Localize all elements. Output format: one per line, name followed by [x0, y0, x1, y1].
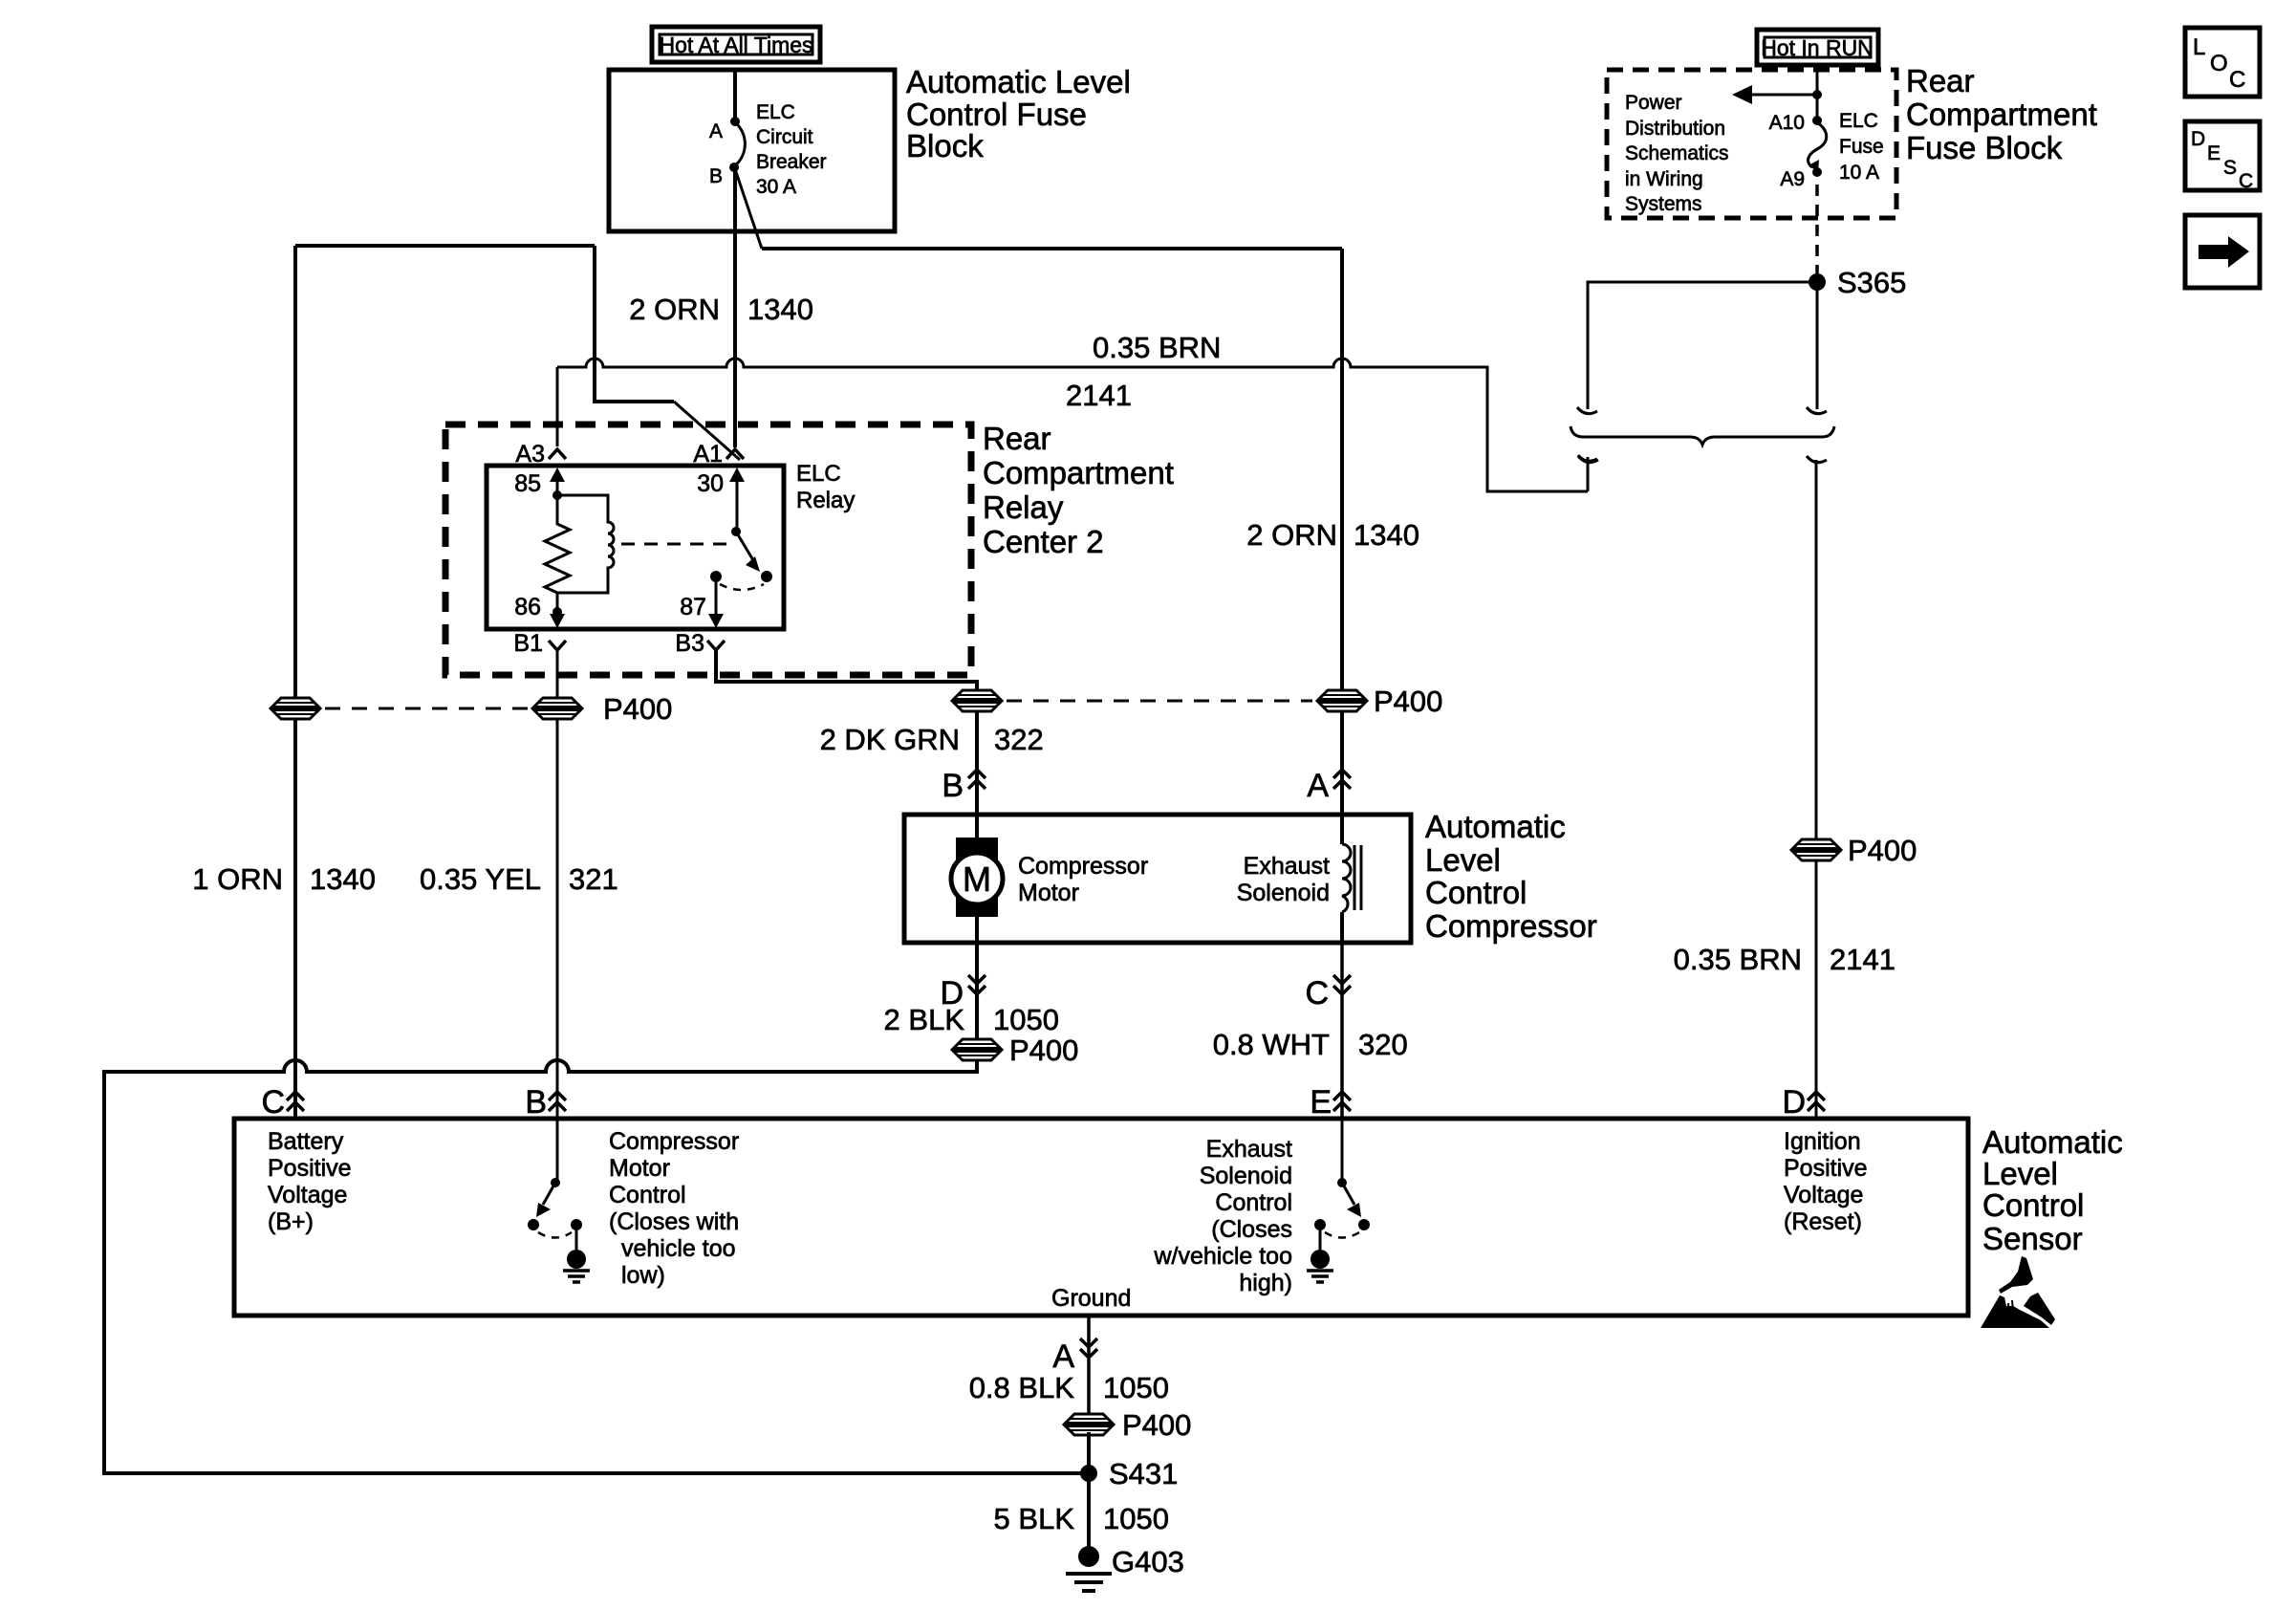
svg-text:O: O — [2210, 51, 2228, 76]
svg-text:vehicle too: vehicle too — [621, 1235, 736, 1262]
label: Ignition Positive Voltage (Reset) — [1784, 1128, 1868, 1235]
connector P400 on 0.8 BLK wire — [1064, 1414, 1114, 1435]
DESC legend box — [2185, 121, 2260, 192]
svg-text:5 BLK: 5 BLK — [994, 1502, 1075, 1535]
svg-text:Relay: Relay — [796, 488, 855, 513]
wire: B+ branch top horizontal — [295, 244, 595, 248]
svg-text:S365: S365 — [1837, 266, 1906, 299]
label: 0.8 BLK 1050 — [969, 1371, 1169, 1404]
svg-text:Exhaust: Exhaust — [1244, 853, 1330, 880]
svg-text:(Closes: (Closes — [1211, 1216, 1292, 1243]
wire: 2 ORN to compressor A — [1340, 710, 1344, 815]
terminal A of sensor (ground) — [1080, 1338, 1097, 1358]
pin label 87 — [680, 594, 706, 620]
wire: 2 BLK return to S431 with crossover bumps — [104, 1059, 1081, 1473]
svg-text:Rear: Rear — [1906, 63, 1975, 98]
svg-text:Hot In RUN: Hot In RUN — [1761, 35, 1874, 60]
wire break symbol (left upper) — [1577, 407, 1597, 414]
svg-text:1050: 1050 — [1103, 1371, 1169, 1404]
svg-text:0.8 WHT: 0.8 WHT — [1213, 1028, 1330, 1061]
svg-text:87: 87 — [680, 594, 706, 620]
connector half on B3 branch (P400) — [952, 690, 1002, 711]
wire: fuse block top to breaker terminal A — [733, 72, 737, 121]
wire: sensor ground A down — [1087, 1316, 1091, 1418]
sensor switch SW2 pivot node — [1337, 1178, 1347, 1187]
ELC fuse F1 (s-curve) — [1809, 122, 1827, 172]
svg-text:30: 30 — [697, 470, 724, 497]
terminal B of compressor — [968, 770, 986, 789]
svg-text:Sensor: Sensor — [1982, 1221, 2083, 1256]
label: 0.35 BRN 2141 (lower) — [1674, 943, 1895, 976]
SW1 ground wire — [575, 1230, 578, 1250]
svg-text:30 A: 30 A — [756, 176, 796, 198]
svg-text:0.8 BLK: 0.8 BLK — [969, 1371, 1075, 1404]
SW1 case ground — [563, 1250, 590, 1282]
svg-text:B3: B3 — [675, 630, 704, 657]
connector P400 on relay B1 wire — [532, 698, 582, 719]
splice S431 — [1080, 1465, 1097, 1482]
svg-text:ELC: ELC — [796, 461, 841, 487]
svg-text:Voltage: Voltage — [1784, 1182, 1863, 1208]
relay coil winding — [557, 495, 614, 593]
svg-text:2 ORN: 2 ORN — [629, 293, 720, 326]
svg-text:Control: Control — [1982, 1187, 2084, 1223]
terminal D of compressor — [968, 975, 986, 994]
svg-text:Compressor: Compressor — [609, 1128, 739, 1155]
label: Rear Compartment Relay Center 2 — [983, 421, 1174, 559]
svg-text:Solenoid: Solenoid — [1200, 1163, 1292, 1189]
pin label A10 — [1769, 112, 1805, 134]
svg-text:S431: S431 — [1109, 1457, 1178, 1490]
svg-text:B: B — [525, 1084, 547, 1120]
svg-text:Block: Block — [906, 128, 984, 163]
svg-text:Positive: Positive — [1784, 1155, 1868, 1182]
svg-text:(Closes with: (Closes with — [609, 1208, 739, 1235]
svg-text:Battery: Battery — [268, 1128, 344, 1155]
svg-text:2141: 2141 — [1830, 943, 1895, 976]
ground G403 — [1066, 1546, 1112, 1591]
svg-text:B1: B1 — [513, 630, 543, 657]
svg-text:B: B — [709, 165, 723, 187]
terminal E of sensor — [1333, 1092, 1351, 1111]
svg-text:G403: G403 — [1112, 1545, 1184, 1578]
svg-text:C: C — [2239, 170, 2253, 192]
sensor switch SW2 arm — [1342, 1183, 1361, 1217]
splice S365 — [1809, 273, 1826, 291]
terminal C of sensor — [287, 1092, 304, 1111]
label: ELC Relay — [796, 461, 855, 513]
power label box: Hot In RUN — [1757, 30, 1878, 65]
harness brace — [1570, 426, 1834, 445]
relay switch pivot node — [731, 527, 741, 536]
terminal A1 — [726, 449, 744, 459]
svg-text:Control Fuse: Control Fuse — [906, 97, 1087, 132]
svg-text:Motor: Motor — [1018, 880, 1079, 906]
svg-text:Level: Level — [1425, 842, 1501, 878]
label: Battery Positive Voltage (B+) — [268, 1128, 352, 1235]
Automatic Level Control Sensor box — [234, 1119, 1968, 1316]
label: Compressor Motor Control (Closes with vehicle too low) — [609, 1128, 739, 1289]
arrow to power distribution — [1732, 85, 1817, 104]
relay switch contact (rest) — [761, 571, 772, 582]
wire break symbol (right upper) — [1807, 407, 1827, 414]
connector label P400 — [1848, 834, 1917, 867]
pin label 30 — [697, 470, 724, 497]
dashed SW1 travel arc — [538, 1232, 572, 1238]
label: 2 ORN 1340 (compressor feed) — [1246, 518, 1419, 552]
svg-text:320: 320 — [1358, 1028, 1408, 1061]
connector label P400 — [603, 692, 672, 726]
wire: sensor B internal to switch — [556, 1119, 559, 1180]
svg-text:1340: 1340 — [310, 862, 376, 896]
svg-text:P400: P400 — [1848, 834, 1917, 867]
svg-text:Fuse: Fuse — [1839, 136, 1884, 158]
wire: relay B3 to compressor branch — [716, 650, 977, 701]
terminal C of compressor — [1333, 975, 1351, 994]
pin label A — [709, 120, 723, 142]
svg-text:in Wiring: in Wiring — [1625, 168, 1703, 190]
svg-text:A9: A9 — [1780, 168, 1805, 190]
svg-text:Voltage: Voltage — [268, 1182, 347, 1208]
relay switch contact (NO to 87) — [710, 571, 722, 582]
label: Rear Compartment Fuse Block — [1906, 63, 2097, 165]
svg-text:Rear: Rear — [983, 421, 1051, 456]
LOC legend box — [2185, 28, 2260, 97]
wire: sensor E internal to switch — [1341, 1119, 1344, 1180]
svg-text:1340: 1340 — [747, 293, 813, 326]
svg-text:Ground: Ground — [1051, 1285, 1131, 1312]
Rear Compartment Fuse Block dashed box — [1607, 70, 1896, 218]
wire: 0.35 BRN 2141 down to sensor D — [1815, 460, 1818, 1117]
label S365 — [1837, 266, 1906, 299]
dashed SW2 travel arc — [1325, 1232, 1359, 1238]
SW2 contact open — [1358, 1219, 1370, 1230]
node A of circuit breaker — [730, 117, 740, 126]
pin label 85 — [514, 470, 541, 497]
terminal label C — [1305, 975, 1329, 1012]
wire: left branch down to relay A1 junction — [595, 246, 740, 460]
label: Automatic Level Control Sensor — [1982, 1124, 2123, 1256]
ELC Relay box — [487, 466, 784, 629]
svg-text:C: C — [261, 1084, 285, 1120]
svg-text:0.35 BRN: 0.35 BRN — [1093, 331, 1221, 364]
label: 5 BLK 1050 — [994, 1502, 1169, 1535]
SW1 contact to ground — [571, 1219, 582, 1230]
wire break symbol (right lower) — [1807, 456, 1827, 463]
svg-text:D: D — [1782, 1084, 1806, 1120]
wire: 0.35 BRN 2141 horizontal with crossover bumps — [557, 359, 1588, 491]
wire: compressor D down — [975, 943, 979, 1040]
SW1 contact open — [528, 1219, 539, 1230]
connector half on 1 ORN wire (P400) — [271, 698, 320, 719]
terminal label E — [1310, 1084, 1332, 1120]
wire: 0.35 BRN from relay A3 up — [556, 367, 559, 446]
svg-text:Compartment: Compartment — [1906, 97, 2097, 132]
svg-text:2 ORN: 2 ORN — [1246, 518, 1337, 552]
svg-text:Distribution: Distribution — [1625, 118, 1725, 140]
resistor (relay coil shunt) — [545, 495, 570, 612]
node: coil bottom junction — [552, 607, 562, 617]
svg-text:Ignition: Ignition — [1784, 1128, 1861, 1155]
dashed wire from A9 to S365 — [1815, 185, 1819, 277]
label: Automatic Level Control Compressor — [1425, 809, 1597, 944]
Automatic Level Control Compressor box — [904, 815, 1411, 943]
Automatic Level Control Fuse Block box — [609, 70, 895, 231]
label: Exhaust Solenoid — [1237, 853, 1330, 906]
label G403 — [1112, 1545, 1184, 1578]
terminal label A — [1052, 1338, 1074, 1375]
svg-text:P400: P400 — [603, 692, 672, 726]
label: 2141 (upper) — [1066, 379, 1132, 412]
svg-text:Fuse Block: Fuse Block — [1906, 130, 2063, 165]
Rear Compartment Relay Center 2 dashed box — [445, 424, 971, 675]
svg-text:Breaker: Breaker — [756, 151, 827, 173]
svg-text:(B+): (B+) — [268, 1208, 314, 1235]
svg-text:L: L — [2193, 34, 2205, 60]
junction node on feed — [1812, 90, 1822, 99]
svg-text:Control: Control — [1425, 875, 1527, 910]
pin label B — [709, 165, 723, 187]
terminal label B — [942, 768, 964, 804]
svg-text:321: 321 — [569, 862, 618, 896]
exhaust solenoid coil L1 — [1342, 815, 1361, 943]
svg-text:S: S — [2223, 157, 2237, 179]
relay pin 86 arrow — [550, 612, 565, 628]
pin label 86 — [514, 594, 541, 620]
svg-text:M: M — [963, 859, 991, 899]
terminal D of sensor — [1808, 1092, 1825, 1111]
wire: 1 ORN 1340 left vertical to sensor C — [293, 246, 297, 1117]
wire: 2 ORN 1340 from breaker B down to relay A1 — [733, 167, 737, 447]
sensor switch SW1 arm — [536, 1183, 555, 1217]
label: 1 ORN 1340 — [192, 862, 376, 896]
svg-text:86: 86 — [514, 594, 541, 620]
svg-text:A: A — [1052, 1338, 1074, 1375]
svg-text:P400: P400 — [1374, 685, 1442, 718]
relay pin 87 arrow — [708, 577, 724, 628]
svg-text:Compressor: Compressor — [1425, 908, 1597, 944]
node: coil top junction — [552, 490, 562, 500]
wire: S365 down to harness break — [1816, 282, 1819, 409]
dashed switch travel arc — [720, 584, 764, 590]
label: Automatic Level Control Fuse Block — [906, 64, 1131, 163]
svg-text:A: A — [1307, 768, 1329, 804]
relay pin 85 arrow — [550, 468, 565, 495]
svg-text:2141: 2141 — [1066, 379, 1132, 412]
svg-text:ELC: ELC — [756, 101, 795, 123]
SW2 case ground — [1307, 1250, 1333, 1282]
svg-text:1050: 1050 — [1103, 1502, 1169, 1535]
svg-text:Positive: Positive — [268, 1155, 352, 1182]
svg-text:Relay: Relay — [983, 490, 1064, 525]
label: 0.35 YEL 321 — [420, 862, 618, 896]
svg-text:Systems: Systems — [1625, 193, 1702, 215]
forward arrow legend box — [2185, 215, 2260, 288]
svg-text:Compartment: Compartment — [983, 455, 1174, 490]
svg-text:ELC: ELC — [1839, 110, 1878, 132]
svg-text:D: D — [2191, 128, 2205, 150]
dashed actuation link from coil to switch — [621, 543, 726, 546]
svg-text:Motor: Motor — [609, 1155, 670, 1182]
svg-text:2 DK GRN: 2 DK GRN — [820, 723, 960, 756]
svg-text:2 BLK: 2 BLK — [884, 1003, 965, 1036]
terminal B1 — [549, 641, 566, 650]
connector P400 on 2 ORN compressor feed — [1317, 690, 1367, 711]
connector P400 on 0.35 BRN wire — [1791, 839, 1841, 860]
wire: diagonal from breaker B to compressor feed — [735, 169, 762, 249]
label: 2 BLK 1050 — [884, 1003, 1059, 1036]
pin label B1 — [513, 630, 543, 657]
svg-text:Control: Control — [1215, 1189, 1292, 1216]
svg-text:1 ORN: 1 ORN — [192, 862, 283, 896]
svg-text:Solenoid: Solenoid — [1237, 880, 1330, 906]
label: 0.8 WHT 320 — [1213, 1028, 1408, 1061]
node B of circuit breaker — [729, 163, 739, 172]
svg-text:A: A — [709, 120, 723, 142]
relay pin 30 arrow — [729, 468, 745, 532]
dashed connector link P400 — [325, 707, 531, 710]
svg-text:Circuit: Circuit — [756, 126, 813, 148]
terminal label A — [1307, 768, 1329, 804]
svg-text:C: C — [1305, 975, 1329, 1012]
wire: 2 ORN feed across to compressor branch — [762, 247, 1342, 250]
pin label A1 — [693, 441, 723, 468]
svg-text:B: B — [942, 768, 964, 804]
svg-text:Compressor: Compressor — [1018, 853, 1148, 880]
compressor motor M1 — [951, 838, 1003, 917]
terminal label C — [261, 1084, 285, 1120]
dashed connector link P400 (compressor) — [1007, 700, 1312, 703]
wire: 0.35 YEL 321 from relay B1 to sensor B — [556, 650, 559, 1117]
wire: compressor B internal — [975, 815, 979, 943]
label: Exhaust Solenoid Control (Closes w/vehicle too high) — [1153, 1136, 1292, 1296]
wire: compressor C down to sensor E — [1340, 943, 1344, 1117]
label S431 — [1109, 1457, 1178, 1490]
sensor switch SW1 pivot node — [551, 1178, 560, 1187]
svg-text:0.35 BRN: 0.35 BRN — [1674, 943, 1802, 976]
label: 2 ORN 1340 (breaker output) — [629, 293, 813, 326]
svg-text:Level: Level — [1982, 1156, 2058, 1191]
circuit breaker CB (arc between A and B) — [734, 122, 745, 166]
svg-text:Power: Power — [1625, 92, 1682, 114]
terminal label D — [1782, 1084, 1806, 1120]
svg-text:E: E — [1310, 1084, 1332, 1120]
svg-text:Automatic: Automatic — [1982, 1124, 2123, 1160]
svg-text:low): low) — [621, 1262, 665, 1289]
wire: S365 branch left and down to harness break — [1588, 282, 1817, 409]
svg-text:Hot At All Times: Hot At All Times — [659, 33, 812, 57]
svg-text:1340: 1340 — [1354, 518, 1419, 552]
label: Power Distribution Schematics in Wiring Systems — [1625, 92, 1729, 215]
svg-text:Center 2: Center 2 — [983, 524, 1104, 559]
svg-text:1050: 1050 — [993, 1003, 1059, 1036]
connector label P400 — [1122, 1408, 1191, 1442]
svg-text:E: E — [2207, 142, 2220, 164]
svg-text:(Reset): (Reset) — [1784, 1208, 1862, 1235]
connector label P400 — [1374, 685, 1442, 718]
terminal B of sensor — [549, 1092, 566, 1111]
wire: P400 to G403 — [1087, 1432, 1091, 1547]
wire: Hot In RUN feed down — [1816, 66, 1819, 120]
pin label B3 — [675, 630, 704, 657]
svg-text:A10: A10 — [1769, 112, 1805, 134]
wire: 2 DK GRN to compressor B — [975, 710, 979, 815]
pin label A9 — [1780, 168, 1805, 190]
node A9 — [1812, 167, 1822, 177]
svg-text:Schematics: Schematics — [1625, 142, 1729, 164]
label: 2 DK GRN 322 — [820, 723, 1044, 756]
wire break symbol on 0.35 BRN at harness — [1578, 455, 1597, 491]
connector label P400 — [1009, 1033, 1078, 1067]
SW2 ground wire — [1319, 1230, 1322, 1250]
label: 0.35 BRN (upper) — [1093, 331, 1221, 364]
svg-text:C: C — [2229, 67, 2245, 93]
relay switch arm — [736, 532, 760, 572]
svg-text:w/vehicle too: w/vehicle too — [1153, 1243, 1292, 1270]
svg-text:P400: P400 — [1122, 1408, 1191, 1442]
svg-text:high): high) — [1239, 1270, 1292, 1296]
svg-text:0.35 YEL: 0.35 YEL — [420, 862, 541, 896]
svg-text:Control: Control — [609, 1182, 686, 1208]
svg-text:Automatic: Automatic — [1425, 809, 1566, 844]
node A10 — [1812, 116, 1822, 125]
svg-text:10 A: 10 A — [1839, 162, 1879, 184]
terminal B3 — [707, 641, 725, 650]
terminal A3 — [549, 449, 566, 459]
power label box: Hot At All Times — [652, 27, 820, 62]
svg-text:Automatic Level: Automatic Level — [906, 64, 1131, 99]
svg-text:85: 85 — [514, 470, 541, 497]
wire: 2 ORN 1340 down to compressor P400 — [1340, 249, 1344, 701]
label: ELC Circuit Breaker 30 A — [756, 101, 827, 198]
svg-text:P400: P400 — [1009, 1033, 1078, 1067]
svg-text:322: 322 — [994, 723, 1044, 756]
SW2 contact to ground — [1314, 1219, 1326, 1230]
pin label A3 — [515, 441, 545, 468]
svg-text:Exhaust: Exhaust — [1206, 1136, 1292, 1163]
label: ELC Fuse 10 A — [1839, 110, 1884, 184]
terminal label D — [940, 975, 964, 1012]
connector P400 on 2 BLK wire — [952, 1039, 1002, 1060]
wire break symbol (left lower) — [1578, 456, 1598, 463]
label: Ground — [1051, 1285, 1131, 1312]
terminal label B — [525, 1084, 547, 1120]
label: Compressor Motor — [1018, 853, 1148, 906]
ESD sensitivity symbol — [1981, 1256, 2055, 1328]
terminal A of compressor — [1333, 770, 1351, 789]
